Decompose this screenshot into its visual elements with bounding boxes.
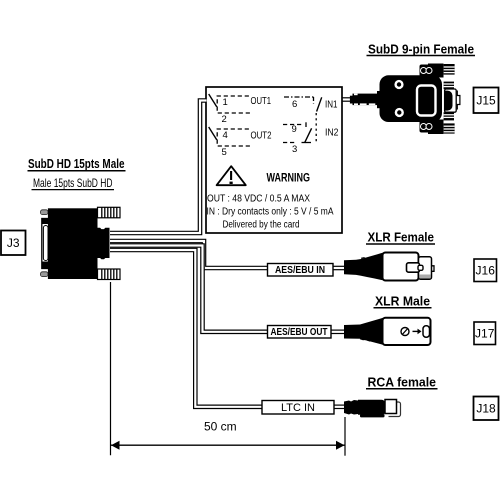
svg-text:J3: J3 [7, 236, 20, 250]
svg-text:J15: J15 [476, 94, 496, 108]
wire W1 to relay box [110, 101, 207, 234]
svg-text:3: 3 [292, 144, 297, 155]
label: SubD HD 15pts Male heading [28, 156, 126, 171]
svg-text:WARNING: WARNING [267, 173, 311, 185]
input contact IN2 [283, 122, 312, 143]
svg-text:AES/EBU OUT: AES/EBU OUT [271, 327, 328, 338]
svg-text:6: 6 [292, 99, 297, 110]
wire W2 to AES/EBU IN [110, 241, 268, 268]
label: Male 15pts SubD HD subheading [32, 176, 115, 190]
wire W3 to AES/EBU OUT [110, 246, 268, 332]
wire W2b AES box to XLR female [332, 266, 346, 271]
svg-text:Male 15pts SubD HD: Male 15pts SubD HD [33, 176, 113, 190]
net label box AES/EBU OUT [268, 326, 332, 339]
svg-text:Delivered by the card: Delivered by the card [223, 219, 300, 230]
svg-text:SubD 9-pin Female: SubD 9-pin Female [368, 42, 474, 57]
svg-text:SubD HD 15pts Male: SubD HD 15pts Male [28, 156, 125, 171]
svg-text:IN : Dry contacts only : 5 V /: IN : Dry contacts only : 5 V / 5 mA [207, 206, 334, 217]
svg-text:XLR Female: XLR Female [368, 230, 435, 245]
node J3 label box [1, 231, 26, 256]
label: SubD 9-pin Female heading [367, 42, 476, 57]
svg-text:J16: J16 [476, 264, 496, 278]
label: RCA female heading [366, 374, 438, 389]
svg-text:OUT2: OUT2 [251, 130, 272, 142]
relay contact OUT2 [209, 127, 251, 146]
svg-text:IN2: IN2 [325, 126, 339, 138]
svg-text:RCA female: RCA female [368, 374, 437, 389]
svg-text:5: 5 [222, 147, 227, 158]
svg-text:J18: J18 [476, 402, 496, 416]
relay contact OUT1 [209, 94, 251, 113]
dimension arrow line 50 cm [111, 441, 345, 450]
svg-text:1: 1 [223, 97, 228, 108]
connector J17 XLR male [344, 318, 431, 345]
warning triangle [217, 166, 246, 185]
svg-text:50 cm: 50 cm [204, 420, 237, 434]
relay interface box outline [206, 87, 342, 233]
net label box LTC IN [262, 401, 334, 415]
label: XLR Male heading [374, 293, 432, 308]
net label box AES/EBU IN [268, 264, 334, 277]
wire W4 to LTC IN [110, 250, 263, 407]
node J17 label box [474, 322, 496, 345]
svg-text:2: 2 [222, 114, 227, 125]
dimension extension line right [344, 417, 346, 456]
svg-text:OUT1: OUT1 [251, 95, 272, 107]
svg-text:4: 4 [223, 130, 228, 141]
svg-text:IN1: IN1 [325, 99, 338, 111]
wire W4b LTC box to RCA [333, 404, 347, 409]
connector J3 SubD HD 15 male [41, 207, 121, 279]
svg-text:AES/EBU IN: AES/EBU IN [275, 265, 325, 276]
node J15 label box [474, 88, 499, 114]
svg-text:9: 9 [292, 124, 297, 135]
svg-text:J17: J17 [475, 327, 495, 341]
svg-text:OUT : 48 VDC / 0.5 A MAX: OUT : 48 VDC / 0.5 A MAX [207, 193, 310, 204]
connector J18 RCA female [344, 400, 401, 418]
label: XLR Female heading [366, 230, 435, 245]
node J18 label box [474, 397, 499, 421]
wire from relay box to SubD9 plug [341, 97, 352, 102]
dimension extension line left [110, 282, 112, 455]
connector J16 XLR female [344, 253, 434, 281]
input contact IN1 [284, 97, 322, 143]
connector J15 SubD 9-pin female body [350, 64, 460, 135]
svg-text:LTC IN: LTC IN [281, 402, 315, 414]
svg-text:XLR Male: XLR Male [375, 293, 430, 308]
wire W3b AES box to XLR male [330, 329, 346, 334]
node J16 label box [474, 259, 497, 282]
